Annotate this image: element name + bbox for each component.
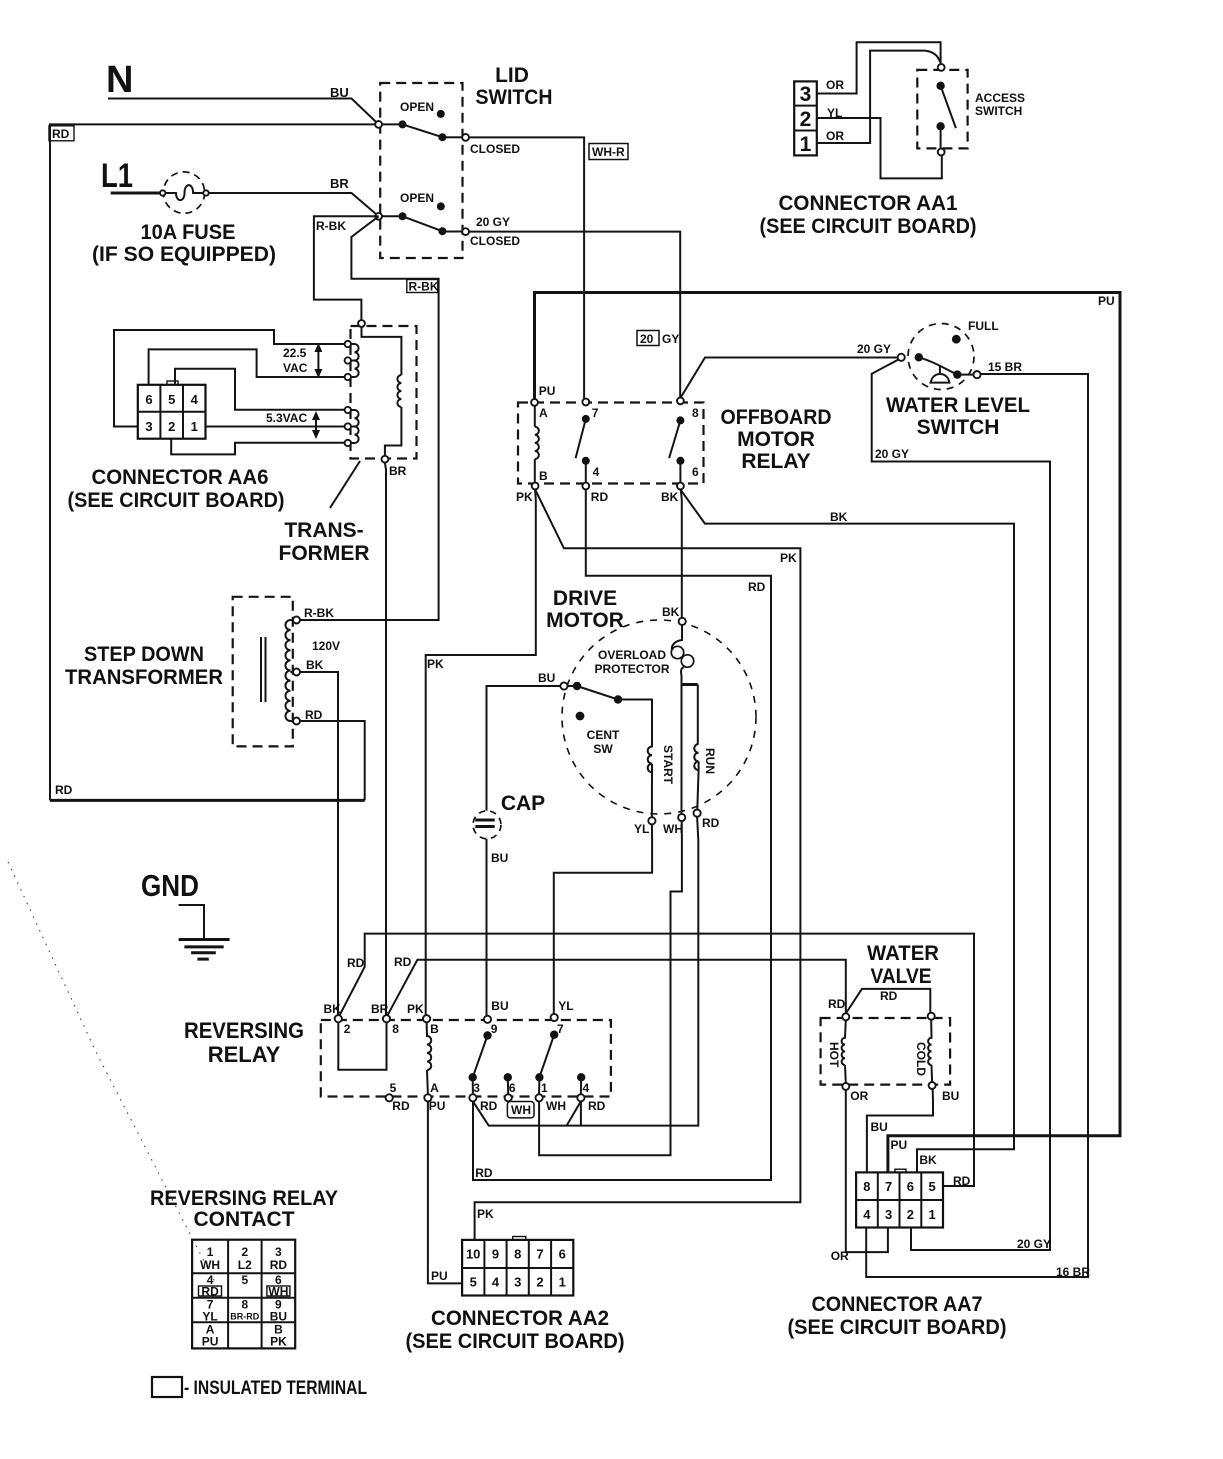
svg-text:20 GY: 20 GY — [875, 447, 909, 461]
water valve box — [821, 1018, 951, 1085]
svg-text:BR-RD: BR-RD — [230, 1312, 259, 1322]
svg-text:3: 3 — [800, 83, 812, 106]
svg-text:8: 8 — [392, 1022, 399, 1036]
svg-text:R-BK: R-BK — [304, 606, 334, 620]
K2 terminal 8 — [383, 1015, 390, 1022]
svg-text:2: 2 — [344, 1022, 351, 1036]
K2 bottom terminal 4 — [577, 1094, 584, 1101]
svg-text:BU: BU — [330, 85, 349, 100]
relay K1 contact 7-4 — [582, 399, 589, 406]
svg-text:RD: RD — [591, 490, 609, 504]
svg-text:6: 6 — [692, 465, 699, 479]
svg-text:BK: BK — [661, 490, 679, 504]
svg-text:5.3VAC: 5.3VAC — [266, 411, 307, 425]
svg-text:4: 4 — [492, 1275, 500, 1290]
wire RD H1 step-down net to T2 and AA7 pin5 — [340, 934, 975, 1186]
svg-text:(IF SO EQUIPPED): (IF SO EQUIPPED) — [92, 243, 276, 266]
wire AA6 pin5 to lower tap1 — [175, 369, 345, 410]
svg-text:1: 1 — [191, 419, 198, 434]
svg-text:6: 6 — [907, 1179, 914, 1194]
wire BK relay 5 to AA7 pin6 — [680, 489, 1014, 1172]
fuse F1 10A — [163, 172, 204, 213]
offboard motor relay K1 box — [518, 403, 704, 484]
motor terminal YL — [648, 817, 655, 824]
svg-text:N: N — [106, 59, 133, 101]
K2 contact 9-3 — [483, 1031, 491, 1039]
svg-text:A: A — [539, 406, 548, 420]
K2 bottom terminal 5 — [386, 1094, 393, 1101]
wire PK relay B to reversing relay pin B — [426, 489, 536, 1015]
svg-text:RD: RD — [392, 1099, 410, 1113]
svg-text:BR: BR — [330, 176, 349, 191]
motor terminal WH — [678, 814, 685, 821]
svg-text:L1: L1 — [101, 157, 133, 195]
svg-text:TRANS-: TRANS- — [284, 519, 363, 542]
svg-text:GND: GND — [141, 868, 199, 903]
svg-text:1: 1 — [800, 133, 812, 156]
svg-text:SW: SW — [593, 742, 613, 756]
reversing relay K2 box — [321, 1020, 611, 1097]
svg-text:8: 8 — [514, 1247, 521, 1262]
svg-text:OR: OR — [826, 129, 844, 143]
scan artifact diagonal — [8, 862, 220, 1292]
svg-text:1: 1 — [928, 1207, 935, 1222]
svg-text:PU: PU — [891, 1138, 908, 1152]
label 20 boxed GY — [637, 331, 659, 346]
wire YL pin2 to access switch bottom — [817, 118, 942, 178]
label R-BK boxed 2 — [407, 280, 438, 293]
K2 coil — [427, 1022, 432, 1070]
transformer T1 lower taps — [345, 407, 351, 413]
svg-text:PU: PU — [202, 1335, 219, 1349]
svg-text:3: 3 — [885, 1207, 892, 1222]
wire protector branch to RUN — [682, 683, 698, 686]
svg-text:VAC: VAC — [283, 361, 308, 375]
svg-text:WH: WH — [663, 822, 683, 836]
svg-text:PK: PK — [427, 657, 444, 671]
svg-text:(SEE CIRCUIT BOARD): (SEE CIRCUIT BOARD) — [788, 1316, 1007, 1339]
svg-text:3: 3 — [514, 1275, 521, 1290]
wire PU K2-A to AA2 pin5 — [428, 1101, 462, 1283]
K2 terminal 9 — [484, 1016, 491, 1023]
K2 terminal 2 — [335, 1015, 342, 1022]
svg-text:15 BR: 15 BR — [988, 360, 1022, 374]
wire 20 GY lid switch to relay contact 8 — [469, 232, 680, 398]
svg-text:20: 20 — [640, 332, 654, 346]
svg-text:WATER LEVEL: WATER LEVEL — [886, 394, 1030, 417]
wire R-BK label branch to transformer — [314, 216, 379, 320]
lid switch contact 2 — [375, 213, 382, 220]
svg-text:120V: 120V — [312, 639, 340, 653]
connector AA2 — [462, 1237, 573, 1296]
svg-text:OPEN: OPEN — [400, 100, 434, 114]
svg-text:2: 2 — [241, 1245, 248, 1259]
svg-text:20 GY: 20 GY — [857, 342, 891, 356]
label WH-R boxed — [589, 144, 628, 160]
connector AA1 — [794, 81, 817, 156]
svg-text:RD: RD — [475, 1166, 493, 1180]
svg-text:RELAY: RELAY — [741, 450, 810, 473]
svg-text:BR: BR — [389, 464, 407, 478]
wire PK relay B to AA2 pin10 — [475, 489, 801, 1240]
svg-text:GY: GY — [662, 332, 679, 346]
svg-text:9: 9 — [491, 1022, 498, 1036]
wire protector to WH terminal — [681, 685, 683, 814]
svg-text:WH: WH — [546, 1099, 566, 1113]
svg-text:OR: OR — [831, 1249, 849, 1263]
leader line transformer — [330, 461, 360, 508]
wire BK step-down to reversing relay pin2 — [300, 672, 338, 1015]
svg-text:5: 5 — [241, 1273, 248, 1287]
connector AA6 — [138, 381, 206, 439]
svg-text:RD: RD — [52, 127, 70, 141]
svg-text:20 GY: 20 GY — [1017, 1237, 1051, 1251]
svg-text:PK: PK — [477, 1207, 494, 1221]
svg-text:CONNECTOR AA1: CONNECTOR AA1 — [779, 192, 958, 215]
svg-text:10A FUSE: 10A FUSE — [141, 221, 236, 244]
relay K1 terminal A — [531, 399, 538, 406]
svg-text:1: 1 — [559, 1275, 566, 1290]
K2 bottom terminal 1 — [536, 1094, 543, 1101]
svg-text:PU: PU — [431, 1269, 448, 1283]
svg-text:CAP: CAP — [501, 792, 545, 815]
svg-text:HOT: HOT — [827, 1042, 841, 1068]
wire PU relay coil A to right border to AA7 pin7 — [535, 293, 1121, 1173]
svg-text:BU: BU — [491, 999, 508, 1013]
svg-text:OR: OR — [826, 78, 844, 92]
K2 terminal B — [423, 1015, 430, 1022]
step down transformer terminals — [293, 617, 300, 624]
water valve COLD coil — [928, 1013, 935, 1020]
svg-text:(SEE CIRCUIT BOARD): (SEE CIRCUIT BOARD) — [68, 489, 285, 512]
svg-text:CONNECTOR AA6: CONNECTOR AA6 — [92, 466, 269, 489]
svg-text:3: 3 — [473, 1081, 480, 1095]
label RD boxed — [49, 126, 74, 141]
svg-text:RD: RD — [828, 997, 846, 1011]
svg-text:OR: OR — [850, 1089, 868, 1103]
connector AA7 — [856, 1169, 943, 1227]
svg-text:YL: YL — [558, 999, 573, 1013]
wire RD left border net — [50, 124, 379, 800]
wire AA6 pin6 to tap3 — [149, 349, 345, 384]
step down transformer T2 box — [233, 597, 293, 747]
svg-text:BK: BK — [919, 1153, 937, 1167]
svg-text:2: 2 — [907, 1207, 914, 1222]
svg-text:7: 7 — [885, 1179, 892, 1194]
legend table — [192, 1240, 295, 1349]
wire AA6 pin2 to lower tap3 — [171, 439, 344, 455]
svg-text:COLD: COLD — [914, 1042, 928, 1076]
svg-text:LID: LID — [495, 64, 529, 87]
svg-text:PK: PK — [780, 551, 797, 565]
svg-text:A: A — [430, 1081, 439, 1095]
wire 15 BR WLS to AA7 pin4 — [866, 374, 1088, 1277]
svg-text:1: 1 — [541, 1081, 548, 1095]
svg-text:20 GY: 20 GY — [476, 215, 510, 229]
svg-text:SWITCH: SWITCH — [476, 86, 553, 109]
svg-text:PK: PK — [270, 1335, 287, 1349]
svg-text:BK: BK — [662, 605, 680, 619]
wire BU cap to cent switch — [487, 686, 561, 811]
svg-text:CONNECTOR AA7: CONNECTOR AA7 — [812, 1293, 983, 1316]
lid switch box — [380, 83, 462, 258]
svg-text:RUN: RUN — [703, 748, 717, 774]
relay K1 coil — [534, 406, 536, 427]
svg-text:BK: BK — [830, 510, 848, 524]
svg-text:(SEE CIRCUIT BOARD): (SEE CIRCUIT BOARD) — [760, 215, 977, 238]
svg-text:PU: PU — [429, 1099, 446, 1113]
transformer T1 (connector AA6) box — [351, 326, 417, 459]
svg-text:YL: YL — [202, 1310, 217, 1324]
svg-text:SWITCH: SWITCH — [975, 104, 1022, 118]
transformer T1 secondary winding — [362, 327, 402, 375]
svg-text:PU: PU — [539, 384, 556, 398]
svg-text:5: 5 — [928, 1179, 935, 1194]
svg-text:CLOSED: CLOSED — [470, 142, 520, 156]
svg-text:RD: RD — [201, 1285, 219, 1299]
motor terminal RD — [694, 810, 701, 817]
water valve RD link — [846, 989, 931, 1014]
svg-text:22.5: 22.5 — [283, 346, 307, 360]
wire RD AA7 pin5 — [943, 1185, 974, 1187]
capacitor C1 — [473, 811, 501, 839]
svg-text:FORMER: FORMER — [279, 542, 370, 565]
svg-text:TRANSFORMER: TRANSFORMER — [65, 666, 223, 689]
arrow 22.5 VAC — [317, 348, 319, 373]
wire OR pin3 to access switch top — [817, 42, 941, 93]
svg-text:PROTECTOR: PROTECTOR — [594, 662, 669, 676]
svg-text:START: START — [661, 745, 675, 785]
wire YL motor to reversing relay pin7 — [554, 824, 652, 1013]
relay K1 terminal B — [532, 483, 539, 490]
transformer T1 primary taps — [345, 341, 351, 347]
svg-text:WH: WH — [511, 1103, 531, 1117]
svg-text:BR: BR — [371, 1002, 389, 1016]
svg-text:10: 10 — [466, 1247, 480, 1262]
svg-text:9: 9 — [492, 1247, 499, 1262]
svg-text:7: 7 — [536, 1247, 543, 1262]
svg-text:CONNECTOR AA2: CONNECTOR AA2 — [431, 1307, 609, 1330]
svg-text:OVERLOAD: OVERLOAD — [598, 648, 666, 662]
wire L1 to fuse — [111, 192, 160, 195]
step down transformer T2 winding — [285, 620, 290, 721]
svg-text:4: 4 — [191, 392, 199, 407]
wire AA6 pin1 to lower tap2 — [206, 426, 345, 428]
lid switch contact 1 — [375, 121, 382, 128]
svg-text:OPEN: OPEN — [400, 191, 434, 205]
svg-text:3: 3 — [145, 419, 152, 434]
cent switch — [573, 682, 581, 690]
svg-text:RD: RD — [588, 1099, 606, 1113]
svg-text:RD: RD — [55, 783, 73, 797]
wire OR pin1 to access switch top — [817, 51, 940, 143]
arrow 5.3 VAC — [315, 416, 317, 434]
svg-text:R-BK: R-BK — [316, 219, 346, 233]
access switch box — [917, 70, 967, 148]
K2 open contact 4 — [577, 1073, 585, 1081]
svg-text:5: 5 — [390, 1081, 397, 1095]
svg-text:6: 6 — [559, 1247, 566, 1262]
wire N (BU) to lid switch — [108, 99, 379, 125]
wire BR transformer to reversing relay pin8 — [385, 463, 386, 1016]
svg-text:REVERSING: REVERSING — [184, 1018, 304, 1043]
svg-text:L2: L2 — [238, 1258, 252, 1272]
K2 bottom terminal A — [424, 1094, 431, 1101]
wire R-BK to step-down transformer — [300, 216, 439, 620]
wire WH-R lid switch to relay contact 7 — [469, 137, 584, 399]
svg-text:7: 7 — [592, 406, 599, 420]
svg-text:R-BK: R-BK — [409, 279, 439, 293]
K2 open contact 6 — [504, 1073, 512, 1081]
legend insulated terminal — [152, 1377, 182, 1397]
svg-text:RELAY: RELAY — [208, 1042, 281, 1067]
svg-text:- INSULATED TERMINAL: - INSULATED TERMINAL — [184, 1378, 367, 1399]
svg-text:BU: BU — [871, 1120, 888, 1134]
svg-text:REVERSING RELAY: REVERSING RELAY — [150, 1187, 338, 1210]
cent switch input BU — [560, 682, 567, 689]
svg-text:2: 2 — [800, 108, 812, 131]
svg-text:1: 1 — [207, 1245, 214, 1259]
wire OR valve to AA7 pin3 — [846, 1090, 888, 1252]
wire RD relay 4 to reversing relay pin3 net — [473, 489, 771, 1180]
K2 bottom terminal 3 — [469, 1094, 476, 1101]
svg-text:RD: RD — [305, 708, 323, 722]
svg-text:BU: BU — [538, 671, 555, 685]
overload protector — [672, 625, 682, 650]
svg-text:VALVE: VALVE — [871, 965, 932, 988]
wire RD H2 to T6 and water valve HOT — [388, 960, 846, 1016]
svg-text:8: 8 — [692, 406, 699, 420]
svg-text:OFFBOARD: OFFBOARD — [721, 406, 832, 429]
svg-text:5: 5 — [168, 392, 175, 407]
svg-text:4: 4 — [583, 1081, 590, 1095]
svg-text:BU: BU — [270, 1310, 287, 1324]
svg-text:RD: RD — [270, 1258, 288, 1272]
svg-text:FULL: FULL — [968, 319, 999, 333]
svg-text:8: 8 — [863, 1179, 870, 1194]
svg-text:CENT: CENT — [587, 728, 620, 742]
svg-text:(SEE CIRCUIT BOARD): (SEE CIRCUIT BOARD) — [406, 1330, 625, 1353]
WLS pressure dome — [930, 365, 951, 383]
svg-text:ACCESS: ACCESS — [975, 91, 1025, 105]
drive motor M1 outline — [562, 620, 756, 814]
wire BR fuse to lid switch — [209, 193, 378, 216]
svg-text:4: 4 — [593, 465, 600, 479]
access switch S2 — [938, 64, 945, 71]
svg-text:BK: BK — [306, 658, 324, 672]
svg-text:RD: RD — [702, 816, 720, 830]
svg-text:YL: YL — [634, 822, 649, 836]
svg-text:2: 2 — [168, 419, 175, 434]
wire RD motor to reversing relay net — [473, 817, 698, 1126]
svg-text:6: 6 — [145, 392, 152, 407]
wire 20 GY WLS down to AA7 pin2 — [872, 360, 1050, 1251]
K2 contact 7-1 — [550, 1031, 558, 1039]
svg-text:16 BR: 16 BR — [1056, 1265, 1090, 1279]
wire AA6 pin3 to tap1 — [114, 330, 345, 427]
svg-text:5: 5 — [470, 1275, 477, 1290]
svg-text:WH: WH — [200, 1258, 220, 1272]
svg-text:PK: PK — [516, 490, 533, 504]
RUN winding — [694, 744, 698, 770]
svg-text:6: 6 — [509, 1081, 516, 1095]
wire 20GY relay 8 to water level switch — [680, 358, 898, 399]
svg-text:RD: RD — [880, 989, 898, 1003]
wire BU valve to AA7 pin8 — [867, 1089, 933, 1172]
svg-text:MOTOR: MOTOR — [546, 609, 624, 632]
wire WH motor to reversing relay pin1 — [539, 821, 682, 1155]
svg-text:CONTACT: CONTACT — [193, 1208, 294, 1231]
K2 link 2-8 — [338, 1022, 386, 1069]
svg-text:CLOSED: CLOSED — [470, 234, 520, 248]
svg-text:BK: BK — [324, 1002, 342, 1016]
svg-text:PK: PK — [407, 1002, 424, 1016]
label WH boxed insulated — [507, 1102, 534, 1118]
svg-text:DRIVE: DRIVE — [553, 587, 617, 610]
svg-text:YL: YL — [827, 106, 842, 120]
K2 terminal 7 — [551, 1014, 558, 1021]
motor terminal BK — [679, 618, 686, 625]
svg-text:8: 8 — [241, 1298, 248, 1312]
reversing relay diagonal pin8 stub — [567, 1101, 581, 1125]
transformer T1 bottom terminal BR — [382, 456, 389, 463]
svg-text:WH-R: WH-R — [592, 145, 625, 159]
wire BK relay 5 to motor — [681, 489, 682, 617]
wire BU cap to reversing relay pin9 — [486, 839, 488, 1016]
svg-text:PU: PU — [1098, 294, 1115, 308]
relay K1 contact 8-5 — [677, 398, 684, 405]
svg-text:STEP DOWN: STEP DOWN — [84, 643, 204, 666]
svg-text:B: B — [430, 1022, 439, 1036]
svg-text:B: B — [539, 469, 548, 483]
svg-text:2: 2 — [536, 1275, 543, 1290]
START winding — [648, 744, 652, 772]
water level switch S3 — [908, 324, 974, 390]
water valve HOT coil — [842, 1013, 849, 1020]
svg-text:4: 4 — [863, 1207, 871, 1222]
svg-text:SWITCH: SWITCH — [917, 416, 1000, 439]
svg-text:WH: WH — [268, 1285, 288, 1299]
svg-text:3: 3 — [275, 1245, 282, 1259]
svg-text:RD: RD — [394, 955, 412, 969]
step down transformer core — [261, 637, 266, 702]
svg-text:MOTOR: MOTOR — [737, 428, 815, 451]
svg-text:RD: RD — [347, 956, 365, 970]
svg-text:BU: BU — [942, 1089, 959, 1103]
svg-text:BU: BU — [491, 851, 508, 865]
svg-text:WATER: WATER — [867, 942, 939, 965]
K2 bottom terminal 6 — [505, 1094, 512, 1101]
transformer T1 top terminal — [358, 320, 365, 327]
svg-text:RD: RD — [748, 580, 766, 594]
svg-text:RD: RD — [480, 1099, 498, 1113]
